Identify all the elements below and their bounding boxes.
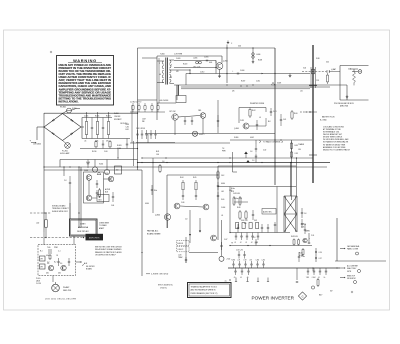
svg-text:R-84: R-84 [180,177,183,179]
svg-text:G: G [302,295,304,298]
svg-text:2-WIRE GROUND: 2-WIRE GROUND [151,274,169,276]
svg-text:IN TERMINALS T-84: IN TERMINALS T-84 [323,131,339,134]
svg-text:T-801: T-801 [306,277,310,279]
svg-text:.05: .05 [240,277,242,279]
svg-text:R-8xx: R-8xx [231,188,235,190]
svg-text:.02: .02 [251,242,253,244]
svg-text:R-806: R-806 [232,259,236,261]
svg-text:LKG 1150 OSCILLOSCOPE: LKG 1150 OSCILLOSCOPE [45,298,77,300]
svg-text:X-80: X-80 [303,68,306,70]
svg-text:6-82: 6-82 [58,273,61,275]
svg-text:847: 847 [330,291,333,293]
svg-text:COILS AND CONDITIONS: COILS AND CONDITIONS [323,125,345,128]
svg-text:6-81: 6-81 [326,62,329,64]
svg-text:R-82: R-82 [252,110,256,112]
svg-text:R-803: R-803 [106,116,110,118]
svg-text:R-8xx: R-8xx [299,253,303,255]
svg-text:V-803: V-803 [84,170,88,172]
svg-text:R-809: R-809 [117,145,122,147]
svg-text:1.5M: 1.5M [244,259,247,261]
svg-text:S: S [171,65,172,67]
svg-text:RT-801: RT-801 [60,107,66,109]
svg-text:C-80 X2: C-80 X2 [177,249,183,251]
svg-text:4-BRN: 4-BRN [305,231,310,233]
svg-text:R-820: R-820 [183,64,187,66]
svg-text:C-809: C-809 [176,58,180,60]
svg-text:2-CON: 2-CON [36,283,42,285]
svg-text:6-808: 6-808 [277,83,281,85]
svg-text:T-8: T-8 [222,148,224,150]
svg-text:LINE /: LINE / [80,224,86,226]
svg-text:.001: .001 [300,91,303,93]
svg-text:V-8: V-8 [47,263,49,265]
svg-text:MV-8: MV-8 [126,124,130,126]
svg-text:C-804: C-804 [256,259,260,261]
svg-text:C-804: C-804 [221,207,225,209]
svg-text:WHOLE BRACKET SET: WHOLE BRACKET SET [323,133,343,136]
svg-text:V-80 V-81: V-80 V-81 [241,220,248,222]
svg-text:1-TR PWR: 1-TR PWR [174,54,183,56]
svg-text:TRIMLINE CONNECT: TRIMLINE CONNECT [52,208,69,210]
svg-text:SHIELD WIRE ONLY: SHIELD WIRE ONLY [52,211,69,213]
svg-text:6-80: 6-80 [105,173,108,175]
svg-text:.05: .05 [247,277,249,279]
svg-text:P/LAMP: P/LAMP [63,286,70,289]
svg-text:R-85: R-85 [193,177,196,179]
svg-text:B+: B+ [324,277,326,279]
svg-text:47K: 47K [176,71,179,73]
svg-text:C-806: C-806 [240,70,244,72]
svg-text:RELAYS ANY SIGNAL SUMMED: RELAYS ANY SIGNAL SUMMED [95,248,122,251]
svg-text:BOARD SPARE: BOARD SPARE [147,233,161,236]
svg-text:2.2K: 2.2K [238,259,241,261]
svg-text:T-80: T-80 [47,247,50,249]
svg-text:NE FILTER: NE FILTER [86,266,95,268]
svg-text:6-80: 6-80 [209,62,212,64]
svg-text:V-802: V-802 [99,164,103,166]
svg-text:6-802: 6-802 [250,137,254,139]
svg-text:R-81: R-81 [126,129,129,131]
svg-text:.02: .02 [245,242,247,244]
svg-text:Q-800: Q-800 [155,215,160,217]
svg-text:Q-804: Q-804 [234,128,239,130]
svg-text:5-80: 5-80 [348,69,351,71]
svg-text:OR DEFECTIVE IN HELP: OR DEFECTIVE IN HELP [95,255,117,257]
svg-text:AND WORKBENCH WHEN IS: AND WORKBENCH WHEN IS [191,289,217,292]
svg-text:FROM BTM: FROM BTM [347,278,356,280]
svg-text:W/ GROUNDS WIRE BELL, AFF: W/ GROUNDS WIRE BELL, AFF [323,138,349,141]
svg-text:AT TERMINAL 82 THE: AT TERMINAL 82 THE [323,128,342,131]
svg-text:C-94: C-94 [301,224,304,226]
svg-text:SPLIT 455/875 KC: SPLIT 455/875 KC [158,285,174,287]
svg-text:C-84: C-84 [111,205,114,207]
svg-text:TRIANGLE ADAPTERS TOOLS: TRIANGLE ADAPTERS TOOLS [191,285,218,288]
svg-text:W-80: W-80 [316,58,320,60]
svg-text:R-808: R-808 [258,60,262,62]
svg-text:R-8x: R-8x [154,190,157,192]
svg-text:C-92 C-93: C-92 C-93 [236,250,243,252]
svg-text:.05: .05 [221,215,223,217]
svg-text:22K: 22K [232,91,235,93]
svg-text:6-81: 6-81 [46,273,49,275]
svg-text:C-80: C-80 [104,151,108,153]
svg-text:(BELOW): (BELOW) [340,106,348,108]
svg-text:C-8: C-8 [185,219,188,221]
svg-text:C-81: C-81 [283,119,286,121]
svg-text:C-86: C-86 [181,202,184,204]
svg-text:C-81: C-81 [273,111,277,113]
svg-text:C-804: C-804 [312,277,316,279]
svg-text:R-88: R-88 [237,207,240,209]
svg-text:C-91: C-91 [311,235,314,237]
svg-text:R-80: R-80 [294,113,298,115]
svg-text:C-811: C-811 [256,80,260,82]
svg-text:R-816: R-816 [92,151,96,153]
svg-text:T-800: T-800 [160,54,165,56]
svg-text:V-9: V-9 [60,263,62,265]
svg-text:1-807: 1-807 [142,119,146,121]
svg-text:1.5M: 1.5M [117,148,121,150]
svg-text:FEED PNL: FEED PNL [63,290,71,292]
svg-text:6-80: 6-80 [238,46,241,48]
svg-text:.05: .05 [84,141,86,143]
svg-text:1-8: 1-8 [170,77,172,79]
svg-text:1ST OSC: 1ST OSC [169,111,177,113]
svg-text:C-8: C-8 [250,151,253,153]
svg-text:AMPLIFIER: AMPLIFIER [89,237,100,240]
svg-text:TO REAR: TO REAR [99,224,107,227]
svg-text:RANGES OF PARTS IS PLACED: RANGES OF PARTS IS PLACED [95,251,122,254]
svg-text:C-8: C-8 [304,213,307,215]
svg-text:ASSEMBLE COLD AT FREE: ASSEMBLE COLD AT FREE [323,146,346,149]
svg-text:L-80: L-80 [178,254,181,256]
svg-text:INSTALLATIONS.: INSTALLATIONS. [59,100,79,104]
svg-text:L-805: L-805 [193,58,197,60]
svg-text:C-82: C-82 [263,150,266,152]
svg-text:V-80: V-80 [221,199,224,201]
svg-text:6-810 LAMP: 6-810 LAMP [60,152,70,155]
svg-text:W-800: W-800 [234,137,239,139]
svg-text:.02: .02 [256,242,258,244]
svg-text:C-83: C-83 [295,153,298,155]
svg-text:C-81 C-82 R-8: C-81 C-82 R-8 [136,128,145,130]
svg-text:C-80: C-80 [126,127,129,129]
svg-text:SEE NOTES: USE THE DUPLEX: SEE NOTES: USE THE DUPLEX [95,246,123,248]
svg-text:R-8xx 4.7K: R-8xx 4.7K [234,198,243,200]
svg-text:PLUG: PLUG [36,278,41,280]
svg-text:470: 470 [106,141,109,143]
svg-text:INVERTER DRIVE: INVERTER DRIVE [250,103,265,105]
svg-text:12V B-800: 12V B-800 [33,144,41,146]
svg-text:P/U REGULATOR BOX: P/U REGULATOR BOX [334,102,355,105]
svg-text:1-80: 1-80 [298,149,301,151]
svg-text:PARTIAL A/C: PARTIAL A/C [147,230,159,233]
svg-text:R-83: R-83 [295,145,298,147]
svg-text:ON/OFF: ON/OFF [114,116,120,118]
svg-text:6-80: 6-80 [46,255,49,257]
svg-text:ANTENNA: ANTENNA [78,226,89,229]
svg-text:C-95: C-95 [301,226,304,228]
svg-text:L-80: L-80 [36,223,39,225]
svg-text:.05: .05 [234,277,236,279]
svg-text:+T-80: +T-80 [226,259,230,261]
svg-text:C-9: C-9 [252,160,255,162]
svg-text:22K: 22K [250,259,252,261]
svg-text:2.2K: 2.2K [316,80,319,82]
svg-text:1-80: 1-80 [156,154,159,156]
svg-text:.05: .05 [259,117,261,119]
svg-text:1750 KC: 1750 KC [160,288,168,290]
svg-text:R-2: R-2 [54,262,57,264]
svg-text:C-96: C-96 [319,252,322,254]
svg-text:6-800: 6-800 [221,183,225,185]
svg-text:R-89 R-90: R-89 R-90 [291,236,298,238]
svg-text:C-80: C-80 [229,190,232,192]
svg-text:BOARD: BOARD [86,268,93,271]
svg-text:PERFORMANCE (SECTION 17): PERFORMANCE (SECTION 17) [191,292,218,295]
svg-text:1K: 1K [56,255,58,257]
svg-text:NON A/C BOARD: NON A/C BOARD [52,205,66,208]
svg-text:.001: .001 [221,191,224,193]
svg-text:B-80 X4: B-80 X4 [177,243,183,245]
svg-text:C-97: C-97 [319,258,322,260]
svg-text:L-80 CHOKE: L-80 CHOKE [159,100,168,102]
svg-text:C-801: C-801 [84,116,88,118]
svg-text:C-87: C-87 [224,239,227,241]
svg-text:POWER INVERTER: POWER INVERTER [252,296,295,301]
svg-text:.02: .02 [240,242,242,244]
svg-text:BATTERY PLUS: BATTERY PLUS [322,116,335,119]
svg-text:+: + [186,240,187,242]
svg-text:W/ TAKEN ON DELAY TIME: W/ TAKEN ON DELAY TIME [323,143,346,146]
svg-text:R-81: R-81 [156,151,159,153]
svg-text:L-806: L-806 [256,54,260,56]
svg-text:C-805: C-805 [204,57,208,59]
svg-text:+: + [309,238,310,240]
svg-text:C-85 R-86: C-85 R-86 [233,193,240,195]
svg-text:IN TRANSISTOR REMOVAL RE: IN TRANSISTOR REMOVAL RE [323,141,349,144]
svg-text:C-9: C-9 [253,237,256,239]
svg-text:C-8 R-8 C-9 R-9: C-8 R-8 C-9 R-9 [130,102,141,104]
svg-text:.02: .02 [234,242,236,244]
svg-text:C-812: C-812 [262,259,266,261]
svg-text:R-1: R-1 [40,251,43,253]
svg-text:MIDDLE PLOT CURRENT PATCH: MIDDLE PLOT CURRENT PATCH [323,148,351,151]
svg-text:R-807: R-807 [241,80,245,82]
svg-text:C-8: C-8 [64,180,67,182]
svg-text:C-813: C-813 [240,120,244,122]
svg-text:7 BAND: 7 BAND [298,143,305,146]
svg-text:6-800 J: 6-800 J [199,134,205,136]
svg-text:P: P [159,63,160,65]
svg-text:C-1: C-1 [58,251,61,253]
svg-text:TO RADIO CHASSIS +A: TO RADIO CHASSIS +A [263,141,284,144]
svg-text:SW PART: SW PART [114,118,122,121]
svg-text:R-8: R-8 [268,121,271,123]
svg-text:R-801: R-801 [95,116,99,118]
svg-text:2 BRN WIRE: 2 BRN WIRE [99,223,110,225]
svg-text:6-800: 6-800 [145,203,149,205]
svg-text:6-8: 6-8 [159,74,161,76]
svg-text:MULTIPLEX: MULTIPLEX [77,231,89,233]
svg-text:V-82: V-82 [254,220,257,222]
svg-text:C-810: C-810 [200,72,204,74]
svg-text:S-800: S-800 [114,113,119,115]
